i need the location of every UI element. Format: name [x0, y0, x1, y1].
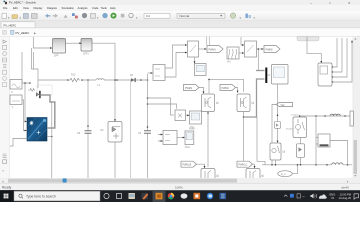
wire: canvas top feed into gate subsystem S1	[307, 37, 321, 62]
wire: S1 pin3 up	[333, 38, 348, 77]
gradient subsystem B1 (filter)	[53, 39, 66, 58]
svg-text:»: »	[2, 169, 4, 173]
title bar	[0, 0, 360, 5]
svg-text:□: □	[329, 1, 331, 5]
wire: T output to PV array input	[22, 100, 26, 131]
oval goto tag A	[278, 171, 292, 177]
svg-text:PV_HERC * - Simulink: PV_HERC * - Simulink	[9, 1, 37, 5]
wire: stubs from canvas top	[207, 37, 210, 45]
svg-text:PV_HERC: PV_HERC	[4, 23, 17, 27]
node: S1 output pins	[332, 66, 333, 82]
diode block D1 (module)	[101, 122, 123, 143]
inductor L1	[96, 79, 104, 80]
toolbar	[0, 11, 360, 21]
tab bar	[0, 21, 360, 28]
carrier generator W1	[227, 47, 239, 64]
svg-text:Type here to search: Type here to search	[26, 194, 56, 198]
IGBT I1	[292, 115, 307, 138]
wire: B1 to B2	[66, 42, 81, 44]
wire: B2 output down to DC bus	[92, 43, 115, 120]
svg-text:Help: Help	[110, 6, 116, 10]
taskbar	[0, 190, 360, 202]
svg-text:Code: Code	[92, 6, 99, 10]
svg-text:R13: R13	[71, 74, 76, 77]
svg-text:Normal: Normal	[180, 14, 190, 18]
wire: V measurement up to mux	[165, 45, 186, 68]
wire: Q2 to measurement mux (thick)	[244, 79, 265, 117]
horizontal scrollbar	[0, 178, 360, 183]
wire: M1 bottom into scope Sc0	[194, 57, 196, 62]
wire: I1 top pin to AC node	[299, 116, 301, 117]
scope Sc1	[190, 111, 202, 129]
wire: M2 out to goto tag PWM2	[257, 48, 263, 50]
wire: S1 pin2 up	[333, 38, 343, 72]
goto tag Vdc	[276, 102, 293, 107]
svg-text:PV_HERC: PV_HERC	[16, 31, 30, 35]
capacitor C4	[138, 131, 151, 135]
transformer block B3	[318, 134, 330, 147]
inductor L3 on top AC line	[330, 114, 340, 116]
wire: branch with capacitor C4	[147, 74, 149, 178]
wire: S1 pin1 up	[333, 38, 338, 67]
wire: Ir output to PV array input	[22, 83, 30, 122]
svg-text:LPF1: LPF1	[83, 53, 89, 56]
svg-text:[g]: [g]	[261, 176, 264, 178]
svg-text:▶: ▶	[34, 32, 36, 35]
mux bar	[265, 68, 267, 84]
scope Sc2	[185, 131, 194, 149]
wire: W1 to comparator M2	[239, 52, 243, 54]
svg-text:LPF: LPF	[54, 55, 59, 58]
MPPT block M1	[188, 41, 199, 57]
inductor L2	[332, 163, 343, 165]
capacitor C5	[77, 131, 92, 135]
status bar	[0, 183, 360, 190]
node on C5 branch	[87, 125, 89, 127]
goto tag PWM2	[264, 46, 280, 53]
svg-text:12:00 PM: 12:00 PM	[340, 192, 352, 196]
svg-text:Tools: Tools	[101, 6, 108, 10]
MOSFET Q3	[201, 169, 219, 183]
node junctions on bus	[67, 79, 148, 81]
diode D5 (blocking diode)	[36, 91, 41, 98]
wire: MB to Sc2	[177, 137, 184, 139]
wire: vertical link between AC lines	[315, 116, 317, 165]
svg-text:Edit: Edit	[13, 6, 18, 10]
wire: Vdc tag down to AC bus	[272, 105, 276, 165]
measurement block MB	[163, 131, 177, 145]
AC bus with inductor L2	[262, 164, 352, 166]
left palette strip	[0, 37, 10, 178]
from tag G2b	[237, 161, 253, 167]
node: Ir branch junction	[24, 82, 31, 84]
wire: main horizontal bus with R and L	[38, 79, 148, 81]
svg-text:Diode2: Diode2	[292, 115, 300, 117]
wire: DC rail vertical left	[51, 102, 53, 178]
MOSFET Q1	[202, 94, 219, 112]
resistor R13	[69, 78, 80, 81]
svg-text:0.2: 0.2	[146, 14, 151, 18]
svg-text:Display: Display	[34, 6, 43, 10]
svg-text:Diagram: Diagram	[47, 6, 58, 10]
wire: tag to MOSFET Q4 gate	[253, 164, 255, 166]
wire: PV negative stub bottom-left	[10, 139, 27, 147]
scope Sc0	[195, 64, 207, 76]
scope VB (DC measurements)	[272, 65, 289, 85]
wire: tag to MOSFET Q2 gate	[236, 88, 238, 92]
wire: stub into VI measurement	[148, 72, 152, 74]
window chrome background	[0, 0, 360, 190]
svg-text:Diode2: Diode2	[286, 129, 294, 131]
svg-text:Analysis: Analysis	[78, 6, 89, 10]
menu bar	[0, 5, 360, 11]
from tag PWM2a	[220, 85, 236, 91]
svg-text:–: –	[310, 1, 312, 5]
measurement bus top with dots	[300, 115, 353, 117]
wire: thick DC cable from diode to rail	[40, 95, 54, 128]
svg-text:[g]: [g]	[216, 103, 219, 105]
svg-text:ode45: ode45	[341, 186, 349, 190]
wire: aux vertical to diode leg	[32, 48, 39, 88]
svg-text:PWM1: PWM1	[209, 48, 217, 51]
wire: inverter right leg	[257, 117, 265, 165]
wire: branch with capacitor C5	[87, 80, 89, 178]
svg-text:14-Aug-20: 14-Aug-20	[339, 196, 352, 200]
wire: M1 out to goto tag	[199, 48, 206, 50]
wire: mux to scope	[267, 74, 270, 76]
wire: PV plus output to DC rail	[47, 136, 52, 138]
pin arrow into D1	[114, 119, 116, 121]
wire: into subsystem B1	[33, 37, 51, 48]
wire: stubs into MB	[158, 135, 162, 142]
wire: S1 pin4 to right rail	[333, 42, 353, 82]
svg-text:Pulse: Pulse	[189, 129, 195, 131]
wire: feeds into product	[148, 98, 177, 115]
MOSFET Q2	[237, 94, 254, 112]
svg-text:Simulation: Simulation	[62, 6, 75, 10]
comparator block M2	[245, 41, 257, 57]
from tag PWM1a	[184, 85, 200, 91]
wire: M2 branch down to measurement mux	[257, 49, 259, 71]
IGBT I2	[270, 143, 285, 160]
canvas top handle tab	[297, 37, 319, 41]
wire: B3 left pins	[316, 138, 318, 145]
svg-text:[d]: [d]	[283, 152, 286, 154]
breadcrumb bar	[0, 28, 360, 36]
svg-text:ENG: ENG	[330, 192, 336, 196]
resistor Rs (series zigzag)	[28, 88, 35, 91]
block VI measurement M3	[153, 65, 165, 81]
wire: D1 bottom leg	[114, 142, 116, 178]
wire: vertical drop to Irradiance source area	[21, 52, 23, 83]
pin arrow B1 input	[50, 47, 52, 49]
node area outline (faint)	[37, 85, 52, 95]
PV array U1 (solar panel block)	[25, 118, 47, 142]
wire: branch down from D4 node	[130, 80, 132, 178]
wire: tag to MOSFET Q1 gate	[199, 88, 204, 92]
wire: oval tag to AC bus	[292, 165, 297, 174]
wire: product to scope Sc1	[186, 114, 189, 116]
svg-text:View: View	[23, 6, 29, 10]
goto tag PWM1	[207, 46, 223, 53]
from tag G1b	[181, 161, 197, 167]
svg-text:100%: 100%	[175, 186, 183, 190]
node on C4 branch	[147, 97, 149, 128]
svg-text:Ready: Ready	[2, 186, 12, 190]
svg-text:Ir: Ir	[12, 91, 14, 94]
wire: DC midpoint down to IGBT I2	[277, 84, 279, 141]
svg-text:Pout: Pout	[185, 146, 190, 149]
svg-text:PWM1: PWM1	[185, 87, 193, 90]
svg-text:PWM2: PWM2	[266, 48, 274, 51]
wire: I2 bottom to AC bus	[275, 160, 277, 165]
svg-text:PWM2: PWM2	[222, 87, 230, 90]
svg-text:PWM_C: PWM_C	[239, 164, 248, 167]
wire: upper leg into Q1 with branch to Q2	[209, 79, 244, 93]
gradient subsystem B2 (filter)	[81, 39, 92, 56]
diode block D3	[297, 138, 305, 165]
svg-text:File: File	[3, 6, 8, 10]
diode block D6 (small series element)	[274, 122, 280, 129]
right vertical scrollbar	[353, 37, 358, 178]
blue badge on scrollbar	[63, 178, 67, 182]
wire: Q2 source leg down	[243, 112, 245, 168]
svg-text:Vtri: Vtri	[227, 61, 231, 64]
svg-text:IN: IN	[332, 196, 335, 200]
svg-text:PWM_B: PWM_B	[183, 164, 192, 167]
wire: B3 right pin to load	[330, 141, 348, 165]
canvas	[10, 37, 354, 178]
svg-text:[g]: [g]	[216, 176, 219, 178]
source block Ir (Irradiance constant)	[10, 80, 22, 95]
subsystem S1 (gate driver)	[318, 63, 332, 86]
svg-text:[g]: [g]	[252, 103, 255, 105]
wire: Q1 drain leg down	[207, 112, 209, 168]
wire: I measurement up to mux	[165, 53, 186, 78]
MOSFET Q4	[246, 169, 264, 183]
source block T (Temperature constant)	[10, 95, 22, 110]
load block at right edge	[350, 111, 353, 126]
product block P1	[175, 110, 186, 121]
wire: top feed into comparator	[241, 37, 243, 45]
wire: tag to MOSFET Q3 gate	[197, 164, 205, 166]
diode D4 on bus	[130, 74, 136, 82]
node dots AC bus	[271, 164, 348, 166]
